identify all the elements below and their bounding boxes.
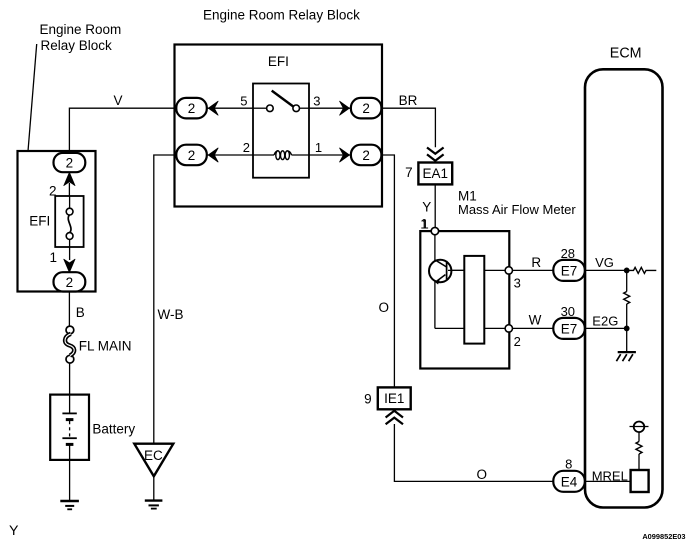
svg-text:1: 1 [315, 140, 322, 155]
svg-text:E7: E7 [561, 264, 578, 279]
svg-text:EC: EC [144, 448, 163, 463]
svg-text:Engine Room Relay Block: Engine Room Relay Block [203, 8, 360, 23]
svg-text:B: B [76, 305, 85, 320]
svg-text:3: 3 [313, 93, 320, 108]
svg-text:5: 5 [240, 93, 247, 108]
svg-text:1: 1 [422, 216, 429, 231]
svg-text:VG: VG [595, 255, 614, 270]
svg-text:Y: Y [9, 523, 19, 539]
svg-text:W-B: W-B [158, 307, 184, 322]
svg-text:2: 2 [66, 156, 74, 171]
svg-text:E7: E7 [561, 322, 578, 337]
svg-text:2: 2 [188, 101, 196, 116]
svg-text:Relay Block: Relay Block [41, 38, 113, 53]
svg-text:30: 30 [561, 304, 575, 319]
svg-text:R: R [531, 255, 541, 270]
svg-text:Y: Y [422, 199, 431, 214]
svg-text:E2G: E2G [592, 313, 618, 328]
svg-text:ECM: ECM [610, 45, 642, 61]
svg-text:Engine Room: Engine Room [40, 22, 122, 37]
svg-text:2: 2 [362, 148, 370, 163]
svg-text:FL MAIN: FL MAIN [79, 339, 132, 354]
svg-text:E4: E4 [561, 474, 578, 489]
svg-text:EFI: EFI [268, 54, 289, 69]
svg-text:9: 9 [364, 391, 372, 406]
svg-text:2: 2 [243, 140, 250, 155]
svg-text:EA1: EA1 [423, 166, 449, 181]
svg-text:2: 2 [188, 148, 196, 163]
svg-text:28: 28 [561, 246, 575, 261]
svg-text:EFI: EFI [29, 214, 50, 229]
svg-text:1: 1 [49, 250, 57, 265]
svg-text:Mass Air Flow Meter: Mass Air Flow Meter [458, 202, 576, 217]
svg-text:O: O [379, 300, 390, 315]
svg-text:2: 2 [514, 334, 521, 349]
svg-text:W: W [529, 312, 542, 327]
svg-text:MREL: MREL [592, 468, 628, 483]
svg-text:O: O [477, 467, 488, 482]
svg-text:A099852E03: A099852E03 [642, 532, 685, 541]
svg-text:2: 2 [362, 101, 370, 116]
svg-text:8: 8 [565, 456, 572, 471]
svg-text:BR: BR [399, 93, 418, 108]
svg-text:V: V [114, 93, 123, 108]
svg-text:2: 2 [66, 275, 74, 290]
svg-text:IE1: IE1 [384, 391, 404, 406]
svg-text:7: 7 [405, 165, 413, 180]
svg-text:Battery: Battery [92, 421, 135, 436]
svg-text:3: 3 [514, 276, 521, 291]
